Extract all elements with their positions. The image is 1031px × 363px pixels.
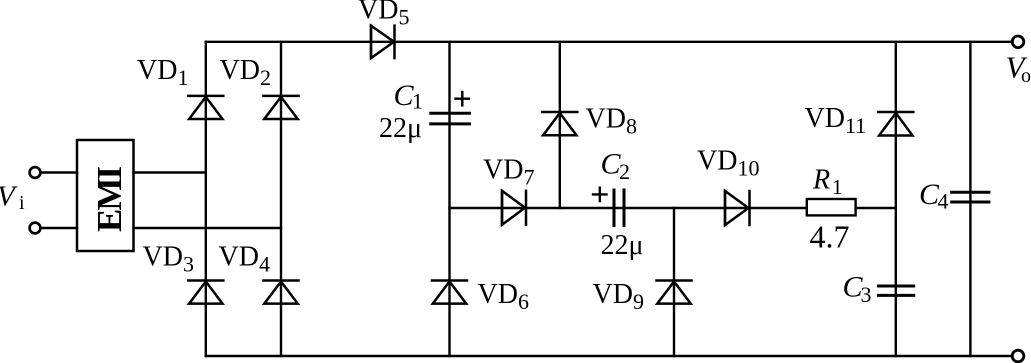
wire input lower lead <box>41 227 78 229</box>
svg-text:VD11: VD11 <box>805 103 867 138</box>
wire VD11/C3 branch <box>895 42 897 356</box>
wire middle bus <box>450 207 896 209</box>
wire top bus <box>206 41 1013 43</box>
svg-text:VD7: VD7 <box>483 155 534 190</box>
svg-text:VD4: VD4 <box>219 242 270 277</box>
capacitor C1 plates <box>431 113 470 124</box>
EMI filter block <box>77 140 134 251</box>
terminal output top <box>1012 36 1024 48</box>
C2 plus sign <box>593 188 607 201</box>
svg-text:o: o <box>1021 65 1031 87</box>
wire left bridge leg <box>205 42 207 356</box>
capacitor C2 plates <box>614 190 624 226</box>
diode VD9 <box>657 281 692 304</box>
svg-text:4: 4 <box>938 189 949 214</box>
terminal output bottom <box>1012 350 1024 362</box>
diode VD1 <box>188 96 223 119</box>
svg-text:VD8: VD8 <box>586 104 637 139</box>
diode VD7 <box>502 191 526 225</box>
terminal input lower <box>30 223 41 234</box>
diode VD6 <box>432 281 467 304</box>
diode VD5 <box>371 26 395 59</box>
svg-text:R: R <box>812 165 830 196</box>
wire EMI upper output <box>134 171 206 173</box>
wire right bridge leg <box>280 42 282 356</box>
capacitor C3 plates <box>878 286 913 295</box>
terminal input upper <box>30 167 41 178</box>
svg-text:VD6: VD6 <box>478 279 529 314</box>
wire C4 branch <box>969 42 971 356</box>
diode VD4 <box>264 281 299 304</box>
svg-text:1: 1 <box>832 175 843 199</box>
diode VD8 <box>542 112 577 135</box>
svg-text:VD9: VD9 <box>593 279 644 314</box>
svg-text:1: 1 <box>412 89 423 114</box>
diode VD2 <box>264 96 299 119</box>
wire EMI lower output <box>134 227 282 229</box>
svg-text:VD10: VD10 <box>697 146 759 181</box>
svg-text:VD3: VD3 <box>143 242 194 277</box>
svg-text:VD1: VD1 <box>137 55 188 90</box>
svg-text:V: V <box>0 181 18 213</box>
svg-text:22μ: 22μ <box>379 113 422 144</box>
wire C1/VD6 branch <box>448 42 450 356</box>
wire VD8 branch <box>559 42 561 208</box>
diode VD11 <box>878 112 913 136</box>
svg-text:EMI: EMI <box>90 167 129 232</box>
wire input upper lead <box>41 171 78 173</box>
C1 plus sign <box>456 92 470 105</box>
svg-text:i: i <box>19 192 25 214</box>
svg-text:3: 3 <box>861 282 872 307</box>
capacitor C4 plates <box>952 192 989 202</box>
svg-text:VD2: VD2 <box>220 55 271 90</box>
svg-text:2: 2 <box>619 159 630 184</box>
wire VD9 branch <box>673 208 675 356</box>
resistor R1 <box>807 199 856 215</box>
diode VD10 <box>725 191 750 225</box>
svg-text:VD5: VD5 <box>358 0 409 30</box>
wire bottom bus <box>206 355 1013 357</box>
svg-text:4.7: 4.7 <box>810 219 850 255</box>
diode VD3 <box>188 281 223 304</box>
svg-text:22μ: 22μ <box>601 230 644 261</box>
